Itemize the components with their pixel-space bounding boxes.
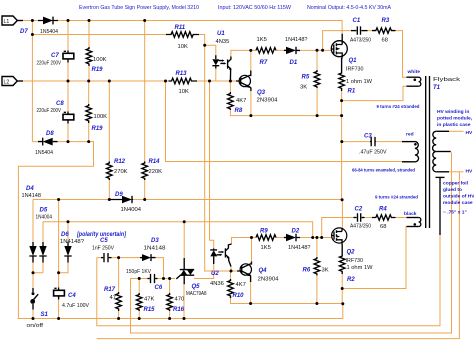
wire U1 LED cathode to base rail xyxy=(215,69,217,82)
svg-text:glued to: glued to xyxy=(443,187,462,193)
svg-text:220uF 200V: 220uF 200V xyxy=(37,108,62,114)
resistor R16 470 xyxy=(167,293,173,311)
wire triac MT2 to wire2 xyxy=(183,222,185,260)
node U1 LED anode xyxy=(203,44,206,47)
wire C5 line to D3 xyxy=(97,258,164,279)
label R19b xyxy=(92,114,108,132)
label red turns xyxy=(352,168,415,174)
wire bottom rail xyxy=(18,304,343,319)
capacitor C3 xyxy=(370,137,376,146)
svg-text:Q2: Q2 xyxy=(347,250,356,256)
node R9 left xyxy=(250,236,253,239)
svg-text:470: 470 xyxy=(175,297,185,303)
svg-text:R8: R8 xyxy=(235,108,243,114)
node R14 bottom xyxy=(143,198,146,201)
svg-text:2N3904: 2N3904 xyxy=(258,277,280,283)
svg-text:R11: R11 xyxy=(175,25,186,31)
svg-text:47: 47 xyxy=(110,295,116,301)
diode D3 xyxy=(140,254,156,261)
svg-text:U1: U1 xyxy=(217,31,225,37)
resistor R5 3K xyxy=(314,70,320,88)
resistor R6 3K xyxy=(314,257,320,275)
svg-text:4.7uF 100V: 4.7uF 100V xyxy=(62,303,89,309)
node wire1 C4 tap xyxy=(57,198,60,201)
diode D9 xyxy=(110,196,133,203)
resistor R11 xyxy=(166,32,199,38)
wire U2 collector to R9 node xyxy=(232,238,251,245)
label U1 xyxy=(216,31,230,45)
svg-text:1N5404: 1N5404 xyxy=(35,150,54,156)
label R5 xyxy=(300,75,310,91)
svg-text:D5: D5 xyxy=(40,208,48,214)
svg-text:3K: 3K xyxy=(300,85,307,91)
optocoupler U2 LED xyxy=(210,249,224,265)
svg-text:IRF730: IRF730 xyxy=(346,258,364,264)
label R15 xyxy=(144,297,156,314)
svg-text:4K7: 4K7 xyxy=(236,98,246,104)
svg-text:150pF 1KV: 150pF 1KV xyxy=(126,269,151,275)
wire bus from R11 node down to Q4 base rail xyxy=(205,45,237,271)
svg-text:270K: 270K xyxy=(114,169,128,175)
svg-text:9 turns #24 stranded: 9 turns #24 stranded xyxy=(375,195,418,201)
svg-text:C2: C2 xyxy=(355,207,363,213)
svg-text:Q4: Q4 xyxy=(259,268,268,274)
label white turns xyxy=(377,104,420,110)
label red winding xyxy=(406,132,414,138)
wire secondary top lead to HV xyxy=(449,130,464,132)
node L2 feedback tap xyxy=(164,80,167,83)
svg-text:220uF 200V: 220uF 200V xyxy=(37,61,62,67)
svg-text:T1: T1 xyxy=(433,85,441,91)
label D2 xyxy=(288,229,311,252)
label copper foil note xyxy=(443,181,474,216)
wire C3 to red winding top xyxy=(376,141,411,143)
label R3 xyxy=(382,18,390,44)
svg-text:4N35: 4N35 xyxy=(216,39,230,45)
node C4 rail xyxy=(57,317,60,320)
wire center column source to Q2 drain xyxy=(341,101,344,229)
label R19a xyxy=(92,57,107,73)
node U1 cathode rail tap xyxy=(208,80,211,83)
svg-text:IRF730: IRF730 xyxy=(346,67,364,73)
svg-text:U2: U2 xyxy=(211,271,219,277)
svg-text:C5: C5 xyxy=(100,238,108,244)
node R15 top xyxy=(138,277,141,280)
node C8 bottom xyxy=(67,140,70,143)
node Q3 base xyxy=(229,80,232,83)
node C3 left xyxy=(340,140,343,143)
transformer T1 black primary winding xyxy=(407,218,421,227)
svg-text:R19: R19 xyxy=(92,67,104,73)
mosfet Q2 xyxy=(332,228,347,246)
wire R15 column xyxy=(138,279,140,319)
diode D2 xyxy=(284,234,300,241)
node S1 rail xyxy=(32,317,35,320)
label black winding xyxy=(404,211,417,217)
svg-text:Q3: Q3 xyxy=(257,90,266,96)
svg-text:S1: S1 xyxy=(41,312,49,318)
svg-text:1N4004: 1N4004 xyxy=(121,207,142,213)
node R19a top xyxy=(88,19,91,22)
svg-text:2N3904: 2N3904 xyxy=(257,98,279,104)
wire Q3 collector riser xyxy=(250,50,252,70)
svg-text:D2: D2 xyxy=(292,229,300,235)
svg-text:10K: 10K xyxy=(179,89,189,95)
node Q2 gate feedback xyxy=(320,236,323,239)
svg-text:HV: HV xyxy=(466,169,474,175)
node triac rail xyxy=(183,317,186,320)
svg-text:C1: C1 xyxy=(353,18,361,24)
node Q4 base xyxy=(230,270,233,273)
label D3 xyxy=(144,238,166,252)
label black turns xyxy=(375,195,418,201)
svg-text:outside of HV: outside of HV xyxy=(443,194,474,200)
label C6 xyxy=(126,269,163,291)
resistor R14 xyxy=(142,162,148,181)
svg-text:R9: R9 xyxy=(260,229,268,235)
resistor R9 1K5 xyxy=(256,235,276,241)
node R5 bottom xyxy=(316,114,319,117)
svg-text:220K: 220K xyxy=(149,169,163,175)
triac Q5 xyxy=(176,258,194,284)
connector L1 xyxy=(2,16,23,25)
wire U1 collector to R7 node xyxy=(231,50,251,56)
resistor R4 68 xyxy=(372,215,396,220)
node R17 rail xyxy=(117,317,120,320)
svg-text:1 ohm 1W: 1 ohm 1W xyxy=(346,79,373,85)
label R17 xyxy=(104,287,116,301)
wire R19b column xyxy=(88,81,90,142)
svg-text:47K: 47K xyxy=(144,297,154,303)
resistor R1 1 ohm xyxy=(339,58,345,91)
wire D8 rail xyxy=(18,142,93,319)
svg-text:1nF 250V: 1nF 250V xyxy=(92,246,114,252)
capacitor C1 xyxy=(351,26,368,34)
label D1 xyxy=(285,37,308,66)
diode D7 xyxy=(38,17,58,25)
wire Q2 source node to black winding bottom xyxy=(342,227,406,304)
node L1-D7 junction xyxy=(31,19,34,22)
node wire2 triac xyxy=(183,220,186,223)
svg-text:A473/250: A473/250 xyxy=(350,224,371,230)
wire R8 column from base node xyxy=(229,81,231,92)
svg-text:Q1: Q1 xyxy=(349,58,358,64)
wire C8 column xyxy=(67,81,69,142)
label U2 xyxy=(210,271,224,287)
label HV winding note xyxy=(437,109,473,128)
wire R6 column xyxy=(316,238,318,304)
node R19b bottom xyxy=(87,140,90,143)
svg-text:L1: L1 xyxy=(4,19,10,25)
wire top B+ rail from L1 to Q1 drain xyxy=(17,21,342,34)
transformer T1 red center winding xyxy=(402,142,419,162)
svg-text:on/off: on/off xyxy=(27,323,44,329)
label C4 xyxy=(62,293,89,309)
svg-text:.47uF 250V: .47uF 250V xyxy=(359,150,387,156)
title text xyxy=(79,5,391,11)
svg-text:1N4148: 1N4148 xyxy=(144,246,166,252)
svg-text:Evertron Gas Tube Sign Power S: Evertron Gas Tube Sign Power Supply, Mod… xyxy=(79,5,200,11)
wire R17 column xyxy=(118,258,120,319)
wire D4 D5 bottoms to S1 xyxy=(33,263,43,289)
wire gate line segments around D1 to Q1 gate xyxy=(252,49,332,51)
wire Q2 gate feedback riser to C2 line xyxy=(322,218,407,238)
label C1 xyxy=(350,18,371,44)
wire secondary center tap column upper xyxy=(450,152,452,153)
svg-text:3K: 3K xyxy=(322,268,329,274)
svg-text:C3: C3 xyxy=(364,134,372,140)
svg-text:C4: C4 xyxy=(68,293,76,299)
svg-text:red: red xyxy=(406,132,414,138)
wire triac MT1 to rail xyxy=(183,284,185,319)
svg-text:1N4148?: 1N4148? xyxy=(60,239,85,245)
optocoupler U2 phototransistor xyxy=(225,244,231,267)
label C2 xyxy=(350,207,371,230)
node R12 top xyxy=(108,80,111,83)
svg-text:~ .75" x 1": ~ .75" x 1" xyxy=(443,210,467,216)
svg-text:Flyback: Flyback xyxy=(433,77,461,83)
resistor R3 68 xyxy=(372,28,396,33)
capacitor C6 150pF xyxy=(148,274,158,283)
node wire1 Q2 drain xyxy=(341,198,344,201)
node R1 bottom xyxy=(340,99,343,102)
svg-text:1N4148: 1N4148 xyxy=(22,193,42,199)
svg-text:1N4004: 1N4004 xyxy=(36,215,53,221)
resistor R15 47K xyxy=(136,293,142,311)
svg-text:black: black xyxy=(404,211,417,217)
svg-text:D6: D6 xyxy=(61,232,69,238)
wire C4 column xyxy=(58,200,60,319)
diode D4 vertical xyxy=(29,242,36,263)
svg-text:MAC79A8: MAC79A8 xyxy=(186,291,207,297)
node R6 bottom xyxy=(315,302,318,305)
svg-text:68: 68 xyxy=(382,38,388,44)
label C8 xyxy=(37,101,65,114)
svg-text:100K: 100K xyxy=(93,57,107,63)
svg-text:R6: R6 xyxy=(303,268,311,274)
svg-text:R13: R13 xyxy=(176,71,188,77)
svg-text:R14: R14 xyxy=(149,159,161,165)
resistor R19 upper xyxy=(86,47,92,66)
svg-text:module case: module case xyxy=(443,200,473,206)
wire R16 column xyxy=(169,279,171,319)
connector L2 xyxy=(2,77,23,86)
wire feedback from L2 node to red winding bottom xyxy=(166,81,411,162)
svg-text:R4: R4 xyxy=(379,207,387,213)
node R15 rail xyxy=(138,317,141,320)
label C3 xyxy=(359,134,387,156)
svg-text:68: 68 xyxy=(380,224,386,230)
label R8 xyxy=(235,98,247,114)
label R7 xyxy=(257,37,268,66)
svg-text:1N4148?: 1N4148? xyxy=(285,37,308,43)
label R4 xyxy=(379,207,387,231)
svg-text:R2: R2 xyxy=(347,277,355,283)
node R11 line tap xyxy=(31,33,34,36)
capacitor C2 xyxy=(354,213,365,221)
wire left doubler column L1 node down to D8 rail xyxy=(31,21,33,142)
wire R11 feed line y=34.5 xyxy=(32,34,168,36)
wire D6 column xyxy=(59,222,68,273)
switch S1 xyxy=(30,288,38,310)
svg-text:1K5: 1K5 xyxy=(257,37,267,43)
svg-text:D4: D4 xyxy=(26,186,34,192)
resistor R2 1 ohm xyxy=(339,246,345,274)
node wire2 gate drop xyxy=(311,236,314,239)
wire Q2 gate line segments xyxy=(252,237,332,239)
wire R19a column xyxy=(88,21,90,82)
wire secondary bottom lead to HV xyxy=(449,171,464,173)
label R12 xyxy=(114,159,128,175)
wire R14 column from top rail xyxy=(144,21,146,200)
svg-text:1N5404: 1N5404 xyxy=(40,29,59,35)
wire U2 emitter and R10 top xyxy=(230,267,233,280)
label R1 xyxy=(346,79,373,95)
node C7 top xyxy=(67,19,70,22)
label R16 xyxy=(173,297,185,314)
svg-text:HV: HV xyxy=(466,130,474,136)
capacitor C4 electrolytic xyxy=(54,288,65,300)
capacitor C7 electrolytic xyxy=(63,51,74,63)
svg-text:1 ohm 1W: 1 ohm 1W xyxy=(347,265,374,271)
svg-text:1N4148?: 1N4148? xyxy=(288,245,311,251)
svg-text:66-84 turns enameled, stranded: 66-84 turns enameled, stranded xyxy=(352,168,415,174)
diode D1 xyxy=(284,47,300,54)
svg-text:L2: L2 xyxy=(4,80,10,86)
label HV minus xyxy=(466,169,474,175)
label C7 xyxy=(37,53,62,67)
label R13 xyxy=(176,71,189,95)
node R16 rail xyxy=(168,317,171,320)
label R11 xyxy=(175,25,188,50)
node source return join xyxy=(341,302,344,305)
resistor R13 xyxy=(169,78,198,84)
wire C6 trigger line xyxy=(131,264,214,279)
label Q1 xyxy=(346,58,364,73)
svg-text:Q5: Q5 xyxy=(192,284,201,290)
node R5 top xyxy=(316,49,319,52)
transistor Q4 xyxy=(237,262,252,283)
optocoupler U1 phototransistor xyxy=(228,57,232,82)
label R10 xyxy=(233,282,246,299)
wire R11 right to U1 LED anode node xyxy=(199,35,216,56)
label D6 xyxy=(60,232,127,245)
svg-text:10K: 10K xyxy=(178,44,188,50)
node R2 bottom xyxy=(341,287,344,290)
resistor R7 1K5 xyxy=(256,48,276,54)
svg-text:9 turns #24 stranded: 9 turns #24 stranded xyxy=(377,104,420,110)
node Q1 gate feedback xyxy=(321,49,324,52)
wire R10 bottom to emitter return xyxy=(231,282,343,304)
label D4 xyxy=(22,186,42,199)
resistor R10 4K7 xyxy=(228,279,234,298)
capacitor C5 1nF xyxy=(101,253,112,262)
svg-text:R12: R12 xyxy=(114,159,126,165)
node C4 top D6 bottom xyxy=(57,271,60,274)
resistor R8 vertical 4K7 xyxy=(228,92,234,110)
node Q3 emitter xyxy=(249,114,252,117)
wire C3 stub xyxy=(342,141,370,143)
label D7 xyxy=(20,29,59,35)
label HV plus xyxy=(466,130,474,136)
wire Q4 collector riser xyxy=(251,238,253,262)
label R9 xyxy=(260,229,271,252)
svg-text:in plastic case: in plastic case xyxy=(437,122,471,128)
svg-text:100K: 100K xyxy=(94,114,108,120)
diode D5 vertical xyxy=(39,242,46,263)
node R6 top xyxy=(315,236,318,239)
resistor R12 xyxy=(107,162,113,181)
diode D8 pointing left xyxy=(38,138,58,146)
svg-text:R19: R19 xyxy=(92,126,104,132)
wire R5 column xyxy=(316,50,318,70)
label D5 xyxy=(36,208,53,221)
node R7 left xyxy=(249,49,252,52)
wire R12 column from L2 rail xyxy=(108,81,110,200)
capacitor C8 electrolytic xyxy=(63,112,74,124)
svg-text:D8: D8 xyxy=(46,131,54,137)
label Flyback T1 xyxy=(433,77,461,91)
svg-text:Nominal Output: 4.5-0-4.5 KV 3: Nominal Output: 4.5-0-4.5 KV 30mA xyxy=(307,5,391,11)
label Q3 xyxy=(257,90,279,104)
svg-text:R7: R7 xyxy=(260,60,268,66)
svg-text:Input: 120VAC 50/60 Hz 115W: Input: 120VAC 50/60 Hz 115W xyxy=(218,5,291,11)
label R14 xyxy=(149,159,163,175)
svg-text:R16: R16 xyxy=(173,307,185,313)
wire S1 bottom to rail xyxy=(32,309,34,319)
node return rail R1 xyxy=(340,114,343,117)
node wire2 D6 xyxy=(67,220,70,223)
svg-text:C7: C7 xyxy=(51,53,59,59)
node D4 D5 bottom xyxy=(32,271,35,274)
svg-text:D7: D7 xyxy=(20,29,28,35)
wire1 negative rail with D9 xyxy=(33,200,342,243)
label D8 xyxy=(35,131,54,156)
svg-text:R3: R3 xyxy=(382,18,390,24)
node R17 top xyxy=(117,256,120,259)
svg-text:R17: R17 xyxy=(104,287,116,293)
mosfet Q1 xyxy=(331,34,347,60)
svg-text:copper foil: copper foil xyxy=(443,181,469,187)
optocoupler U1 LED xyxy=(212,55,226,68)
label C5 xyxy=(92,238,114,252)
node D3 bottom xyxy=(162,277,165,280)
wire Q1 gate feedback riser to C1 line xyxy=(323,31,407,78)
wire bus from L2 rail down to U2 LED cathode xyxy=(210,81,214,249)
label Q2 xyxy=(346,250,364,265)
svg-text:4K7: 4K7 xyxy=(236,282,246,288)
svg-text:R15: R15 xyxy=(144,307,156,313)
node R12 bottom xyxy=(108,198,111,201)
label D9 xyxy=(115,192,142,213)
label R2 xyxy=(347,265,374,283)
node R19 mid xyxy=(87,80,90,83)
wire L2 rail to Q3 base xyxy=(17,80,236,82)
label R6 xyxy=(303,268,329,274)
wire C7 column xyxy=(67,21,69,82)
node R14 top xyxy=(143,19,146,22)
node C7 bottom C8 top xyxy=(67,80,70,83)
diode D6 vertical xyxy=(64,242,71,263)
svg-text:C6: C6 xyxy=(155,285,163,291)
transformer T1 white primary winding xyxy=(407,77,421,86)
wire2 trigger line from D5 to Q2 gate drop xyxy=(43,222,313,242)
wire C6 left column down to center tap return line xyxy=(131,153,452,334)
svg-text:potted module,: potted module, xyxy=(437,116,473,122)
transformer T1 core xyxy=(426,76,430,228)
wire R8 emitter return line y=116 xyxy=(230,88,341,116)
svg-text:R1: R1 xyxy=(348,89,356,95)
